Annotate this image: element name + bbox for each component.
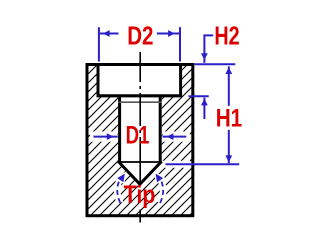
drilled hole + conical tip white bbox=[118, 96, 162, 184]
halo for D1 right arrow bbox=[163, 132, 190, 142]
drill body top faint line bbox=[118, 101, 161, 103]
drill shoulder thin line bbox=[118, 161, 161, 163]
halo for tip left curved arrow bbox=[117, 178, 121, 204]
counterbore cavity white bbox=[97, 65, 182, 96]
drill tip cone outline bbox=[118, 161, 161, 184]
H1 dimension line lower part with down arrow bbox=[228, 130, 230, 163]
vertical centerline bbox=[139, 52, 141, 223]
top face extension line bbox=[195, 63, 236, 65]
svg-text:H2: H2 bbox=[214, 21, 239, 51]
svg-text:Tip: Tip bbox=[124, 181, 156, 209]
D2 left extension line bbox=[98, 27, 100, 61]
shoulder extension line bbox=[166, 163, 240, 165]
counterbore bottom edge bbox=[97, 94, 183, 97]
D1 left arrow bbox=[94, 136, 118, 138]
block outline bbox=[87, 65, 193, 216]
D2 dimension left arrow bbox=[100, 33, 119, 35]
halo for shoulder extension line bbox=[162, 161, 190, 168]
counterbore left wall bbox=[97, 65, 100, 96]
D2 dimension right arrow bbox=[157, 33, 179, 35]
svg-text:H1: H1 bbox=[216, 104, 243, 132]
svg-text:D2: D2 bbox=[127, 21, 153, 51]
D2 right extension line bbox=[179, 27, 181, 61]
drill hole right wall bbox=[159, 96, 162, 162]
block cross-section hatched body bbox=[86, 63, 195, 217]
D1 right arrow bbox=[163, 136, 187, 138]
H2 leader with down arrow bbox=[204, 35, 213, 63]
counterbore bottom extension line bbox=[189, 95, 209, 97]
svg-text:D1: D1 bbox=[126, 122, 150, 150]
H2 bottom up arrow bbox=[203, 98, 205, 119]
halo for tip right curved arrow bbox=[160, 178, 164, 204]
tip right curved arrow bbox=[160, 178, 164, 204]
halo for D1 left arrow bbox=[90, 132, 118, 142]
H1 dimension line upper part with up arrow bbox=[228, 66, 230, 106]
tip left curved arrow bbox=[117, 178, 121, 204]
drill hole left wall bbox=[118, 96, 121, 162]
counterbore right wall bbox=[179, 65, 182, 96]
